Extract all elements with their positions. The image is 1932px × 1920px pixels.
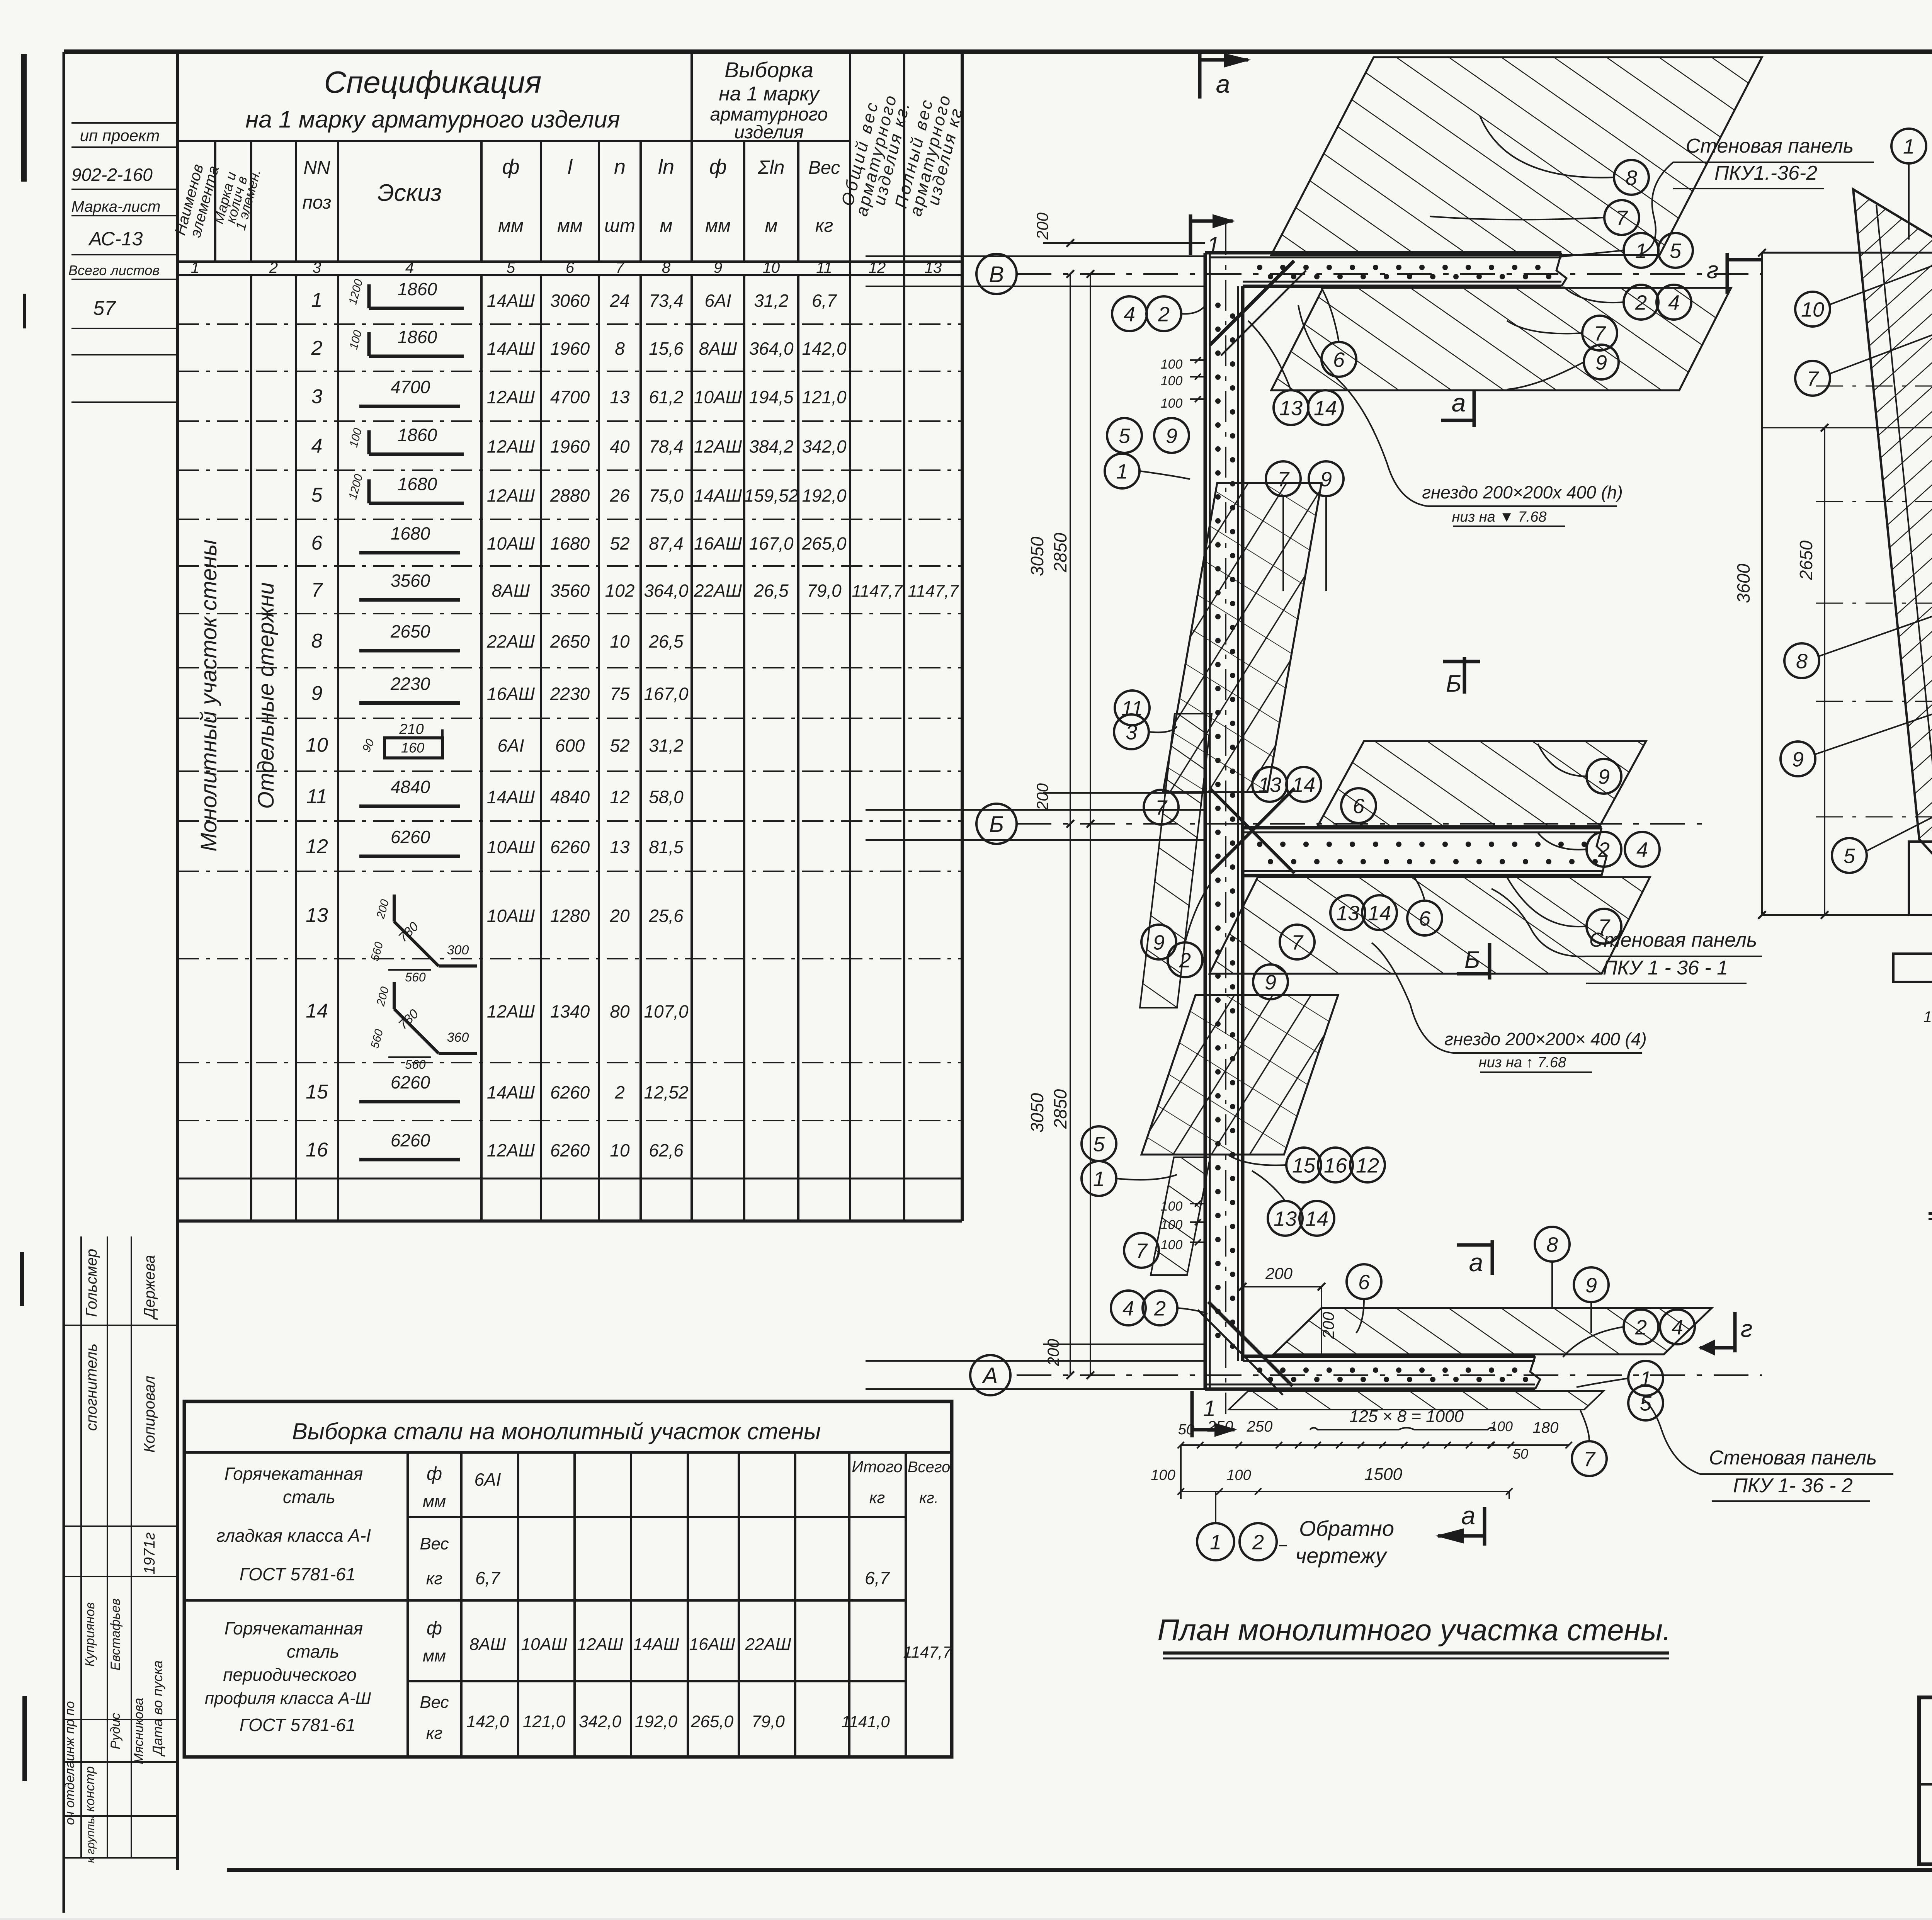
svg-text:102: 102 [605, 581, 635, 601]
svg-text:ф: ф [427, 1464, 442, 1484]
svg-text:Всего: Всего [908, 1459, 950, 1476]
svg-text:4: 4 [1122, 1297, 1134, 1320]
svg-text:560: 560 [405, 1058, 426, 1071]
plan: callouts middle cluster [1252, 767, 1287, 802]
svg-text:Б: Б [1446, 670, 1461, 697]
svg-text:1: 1 [311, 289, 323, 311]
svg-text:констр: констр [83, 1766, 97, 1812]
svg-text:14: 14 [1292, 773, 1315, 796]
plan: left narrow hatched band lower [1151, 1157, 1210, 1275]
svg-text:13: 13 [925, 259, 942, 276]
svg-text:План монолитного участка стен: План монолитного участка стены. [1157, 1613, 1671, 1647]
svg-text:2: 2 [614, 1082, 625, 1102]
svg-text:2880: 2880 [550, 486, 590, 506]
plan: left dimension chains upper [1070, 274, 1071, 824]
svg-text:4700: 4700 [550, 387, 590, 407]
svg-text:2: 2 [1252, 1531, 1264, 1554]
svg-text:Выборка: Выборка [724, 58, 813, 82]
svg-text:ф: ф [709, 155, 726, 179]
svg-text:13: 13 [1274, 1207, 1297, 1230]
svg-text:периодического: периодического [223, 1665, 357, 1685]
svg-text:кг: кг [426, 1724, 442, 1743]
svg-text:ип проект: ип проект [80, 126, 160, 145]
svg-text:192,0: 192,0 [802, 486, 847, 506]
svg-text:31,2: 31,2 [754, 291, 789, 311]
svg-text:10АШ: 10АШ [487, 837, 535, 857]
svg-text:61,2: 61,2 [649, 387, 684, 407]
svg-text:Держева: Держева [141, 1255, 158, 1320]
svg-text:Монолитный участок стены: Монолитный участок стены [196, 539, 221, 852]
svg-text:200: 200 [1033, 212, 1051, 240]
svg-text:1500: 1500 [1364, 1465, 1402, 1484]
svg-text:167,0: 167,0 [749, 534, 794, 554]
spec table header [178, 140, 850, 142]
plan: hatched band below bottom bar [1229, 1391, 1604, 1410]
plan: axis line А [1017, 1374, 1762, 1376]
svg-text:75: 75 [610, 684, 630, 704]
svg-text:4: 4 [1124, 303, 1135, 326]
svg-text:n: n [614, 155, 626, 179]
svg-text:80: 80 [610, 1002, 630, 1022]
svg-text:265,0: 265,0 [690, 1712, 734, 1731]
svg-text:кг: кг [815, 216, 833, 236]
svg-text:Копировал: Копировал [141, 1376, 158, 1453]
svg-text:низ на ▼ 7.68: низ на ▼ 7.68 [1452, 509, 1547, 525]
svg-text:ф: ф [502, 155, 519, 179]
svg-text:560: 560 [405, 970, 426, 984]
plan: hatched band above bottom bar [1274, 1308, 1712, 1354]
svg-text:кг.: кг. [919, 1490, 939, 1507]
svg-text:75,0: 75,0 [649, 486, 684, 506]
svg-text:180: 180 [1533, 1419, 1559, 1436]
svg-text:1860: 1860 [398, 327, 437, 347]
svg-text:13: 13 [1336, 901, 1359, 925]
svg-text:200: 200 [1265, 1264, 1293, 1282]
svg-text:5: 5 [1119, 424, 1131, 447]
svg-text:2: 2 [1158, 303, 1170, 326]
svg-text:3: 3 [313, 259, 321, 276]
svg-text:16: 16 [306, 1139, 328, 1161]
svg-text:1960: 1960 [550, 338, 590, 359]
svg-text:26: 26 [609, 486, 630, 506]
svg-text:1141,0: 1141,0 [841, 1713, 890, 1731]
plan: hatched band above middle bar [1318, 741, 1646, 826]
svg-text:265,0: 265,0 [801, 534, 847, 554]
svg-text:107,0: 107,0 [644, 1002, 689, 1022]
svg-text:6260: 6260 [391, 827, 430, 847]
svg-text:12АШ: 12АШ [487, 1140, 535, 1160]
svg-text:78,4: 78,4 [649, 437, 684, 457]
svg-text:15,6: 15,6 [649, 338, 684, 359]
svg-text:6: 6 [566, 259, 575, 276]
svg-text:1: 1 [1203, 1396, 1216, 1421]
svg-text:2: 2 [311, 337, 323, 359]
svg-text:гладкая класса А-I: гладкая класса А-I [216, 1525, 371, 1546]
svg-text:6260: 6260 [550, 1082, 590, 1102]
svg-text:6АI: 6АI [497, 736, 524, 756]
svg-text:1: 1 [191, 259, 199, 276]
scan edge smudges [21, 54, 27, 182]
svg-text:14АШ: 14АШ [487, 338, 535, 359]
svg-text:Всего листов: Всего листов [68, 262, 160, 278]
svg-text:ГОСТ 5781-61: ГОСТ 5781-61 [240, 1715, 356, 1735]
svg-text:2: 2 [269, 259, 278, 276]
svg-text:79,0: 79,0 [752, 1712, 785, 1731]
plan: hatched panel above top bar [1271, 57, 1762, 255]
svg-text:600: 600 [555, 736, 585, 756]
svg-text:Куприянов: Куприянов [83, 1602, 97, 1667]
section a: foundation [1909, 842, 1932, 915]
svg-text:6260: 6260 [391, 1130, 430, 1150]
svg-text:9: 9 [1585, 1274, 1597, 1297]
svg-text:профиля класса А-Ш: профиля класса А-Ш [205, 1689, 371, 1708]
svg-text:l: l [568, 155, 573, 179]
svg-text:инж пр по: инж пр по [63, 1701, 77, 1761]
svg-text:14АШ: 14АШ [487, 1082, 535, 1102]
svg-text:11: 11 [816, 259, 832, 276]
svg-text:2650: 2650 [390, 621, 430, 641]
plan: callouts left mid [1107, 418, 1142, 453]
svg-text:Итого: Итого [852, 1457, 903, 1476]
svg-text:7: 7 [1616, 206, 1628, 230]
title block frame [1919, 1697, 1932, 1864]
svg-text:192,0: 192,0 [635, 1712, 678, 1731]
svg-text:12АШ: 12АШ [487, 486, 535, 506]
svg-text:Гольсмер: Гольсмер [83, 1249, 100, 1317]
svg-text:8: 8 [1626, 166, 1637, 189]
plan: rebar dots top leg [1257, 265, 1262, 270]
svg-text:210: 210 [399, 721, 423, 738]
svg-text:125 × 8 = 1000: 125 × 8 = 1000 [1349, 1407, 1464, 1426]
svg-text:7: 7 [1136, 1239, 1148, 1262]
plan: rebar dots bottom leg [1257, 1367, 1262, 1373]
svg-text:1: 1 [1116, 460, 1128, 483]
plan: cross hatched block lower [1141, 995, 1338, 1155]
svg-text:Б: Б [989, 812, 1004, 837]
svg-text:1147,7: 1147,7 [908, 582, 959, 601]
svg-text:364,0: 364,0 [749, 338, 794, 359]
svg-text:7: 7 [311, 579, 323, 602]
svg-text:6,7: 6,7 [475, 1568, 500, 1588]
svg-text:поз: поз [303, 192, 332, 213]
svg-text:12АШ: 12АШ [487, 1002, 535, 1022]
svg-text:м: м [660, 216, 673, 236]
svg-text:6: 6 [1333, 348, 1345, 371]
svg-text:22АШ: 22АШ [694, 581, 742, 601]
svg-text:8: 8 [311, 630, 323, 652]
svg-text:ln: ln [658, 155, 674, 179]
svg-text:2650: 2650 [1796, 540, 1816, 580]
svg-text:14АШ: 14АШ [633, 1635, 679, 1654]
page frame [64, 49, 1932, 54]
svg-text:10: 10 [610, 631, 630, 651]
svg-text:167,0: 167,0 [644, 684, 689, 704]
plan: hatched panel below top bar [1271, 288, 1731, 390]
plan: callouts right middle [1587, 759, 1621, 794]
svg-text:159,52: 159,52 [744, 486, 799, 506]
steel selection table [184, 1401, 952, 1757]
plan: section mark 1 top corner [1189, 214, 1192, 255]
svg-text:12: 12 [306, 835, 328, 858]
svg-text:3050: 3050 [1027, 536, 1047, 576]
svg-text:142,0: 142,0 [466, 1712, 509, 1731]
svg-text:13: 13 [1258, 773, 1281, 796]
svg-text:342,0: 342,0 [579, 1712, 622, 1731]
svg-text:100: 100 [1151, 1467, 1175, 1483]
svg-text:11: 11 [306, 786, 327, 808]
sections: horizontal guide dashdot lines [1816, 386, 1932, 387]
svg-text:2: 2 [1635, 1316, 1647, 1339]
plan: wall vertical leg [1204, 253, 1207, 1389]
svg-text:8: 8 [1796, 650, 1808, 673]
plan: corner diagonal bars top [1210, 261, 1294, 345]
svg-text:а: а [1469, 1248, 1483, 1277]
svg-text:Вес: Вес [420, 1693, 449, 1712]
plan: callouts bottom right [1624, 1309, 1658, 1344]
svg-text:62,6: 62,6 [649, 1140, 684, 1160]
svg-text:50: 50 [1178, 1422, 1194, 1438]
plan: section mark Б upper [1463, 657, 1466, 694]
svg-text:10АШ: 10АШ [487, 534, 535, 554]
svg-text:2: 2 [1635, 291, 1647, 314]
svg-text:5: 5 [1670, 239, 1682, 262]
svg-text:22АШ: 22АШ [486, 631, 535, 651]
svg-text:121,0: 121,0 [802, 387, 847, 407]
svg-text:79,0: 79,0 [807, 581, 842, 601]
svg-text:3600: 3600 [1733, 563, 1753, 603]
svg-text:9: 9 [1792, 748, 1804, 771]
plan: wall top leg [1205, 251, 1561, 255]
plan: axis line Б [1017, 823, 1712, 825]
svg-text:Евстафьев: Евстафьев [108, 1599, 123, 1670]
section a: inner panel edge lines [1876, 205, 1932, 819]
svg-text:4: 4 [311, 435, 323, 457]
svg-text:31,2: 31,2 [649, 736, 684, 756]
spec subheader [214, 141, 216, 262]
specification table frame [176, 52, 179, 1221]
plan: section mark a top [1198, 54, 1202, 99]
svg-text:Отдельные стержни: Отдельные стержни [253, 582, 279, 809]
svg-text:100: 100 [1161, 396, 1183, 411]
svg-text:2: 2 [1154, 1297, 1166, 1320]
svg-text:8: 8 [662, 259, 671, 276]
svg-text:кг: кг [869, 1488, 885, 1507]
svg-text:73,4: 73,4 [649, 291, 684, 311]
plan: rebar dots vertical wall [1215, 303, 1221, 308]
svg-text:мм: мм [423, 1492, 446, 1511]
svg-text:1147,7: 1147,7 [903, 1643, 952, 1661]
svg-text:1971г: 1971г [141, 1532, 158, 1575]
section a: base plate [1893, 954, 1932, 982]
svg-text:81,5: 81,5 [649, 837, 684, 857]
svg-text:12АШ: 12АШ [694, 437, 742, 457]
plan: callout 2 left below B axis [1168, 942, 1202, 977]
svg-text:чертежу: чертежу [1295, 1543, 1388, 1568]
svg-text:изделия: изделия [734, 122, 804, 143]
svg-text:24: 24 [609, 291, 629, 311]
svg-text:сталь: сталь [283, 1487, 335, 1507]
svg-text:5: 5 [311, 484, 323, 507]
svg-text:9: 9 [714, 259, 722, 276]
svg-text:1: 1 [1207, 232, 1219, 258]
svg-text:52: 52 [610, 736, 629, 756]
plan: wall bottom leg [1243, 1355, 1535, 1358]
svg-text:4840: 4840 [391, 777, 430, 797]
svg-text:ГОСТ 5781-61: ГОСТ 5781-61 [240, 1564, 356, 1584]
svg-text:1680: 1680 [391, 524, 430, 544]
svg-text:мм: мм [705, 216, 731, 236]
svg-text:на 1 марку арматурного изделия: на 1 марку арматурного изделия [245, 106, 620, 133]
svg-text:1: 1 [1210, 1531, 1221, 1554]
sections: left dims a-a [1761, 253, 1763, 915]
svg-text:Марка-лист: Марка-лист [71, 198, 161, 215]
svg-text:Стеновая панель: Стеновая панель [1686, 135, 1854, 157]
svg-text:16АШ: 16АШ [689, 1635, 735, 1654]
svg-text:57: 57 [93, 297, 116, 320]
svg-text:2850: 2850 [1050, 1089, 1070, 1129]
svg-text:58,0: 58,0 [649, 787, 684, 807]
svg-text:6АI: 6АI [474, 1469, 501, 1490]
svg-text:3560: 3560 [391, 571, 430, 591]
svg-text:Горячекатанная: Горячекатанная [224, 1618, 363, 1638]
svg-text:15: 15 [1292, 1154, 1316, 1177]
svg-text:10: 10 [306, 734, 328, 757]
svg-text:12АШ: 12АШ [577, 1635, 623, 1654]
svg-text:шт: шт [604, 216, 635, 236]
svg-text:26,5: 26,5 [753, 581, 789, 601]
svg-text:1: 1 [1093, 1167, 1105, 1190]
svg-text:7: 7 [1277, 468, 1290, 491]
svg-text:Рудис: Рудис [108, 1713, 123, 1749]
svg-text:4: 4 [1672, 1316, 1683, 1339]
svg-text:20: 20 [609, 906, 630, 926]
svg-text:ПКУ 1- 36 - 2: ПКУ 1- 36 - 2 [1733, 1474, 1853, 1497]
svg-text:4: 4 [1668, 291, 1680, 314]
svg-text:160: 160 [401, 740, 424, 756]
plan: left narrow hatched band upper [1140, 714, 1212, 1008]
plan: section mark a second [1473, 390, 1476, 427]
svg-text:87,4: 87,4 [649, 534, 684, 554]
svg-text:10: 10 [1801, 298, 1824, 321]
svg-text:6,7: 6,7 [812, 291, 837, 311]
svg-text:9: 9 [1598, 765, 1610, 788]
plan: 200 offsets at axes [1043, 242, 1205, 244]
svg-text:низ на ↑ 7.68: низ на ↑ 7.68 [1479, 1054, 1566, 1071]
svg-text:2230: 2230 [550, 684, 590, 704]
svg-text:16АШ: 16АШ [487, 684, 535, 704]
svg-text:100: 100 [1923, 1008, 1932, 1025]
svg-text:сталь: сталь [287, 1641, 339, 1662]
svg-text:100: 100 [1490, 1418, 1513, 1434]
svg-text:1: 1 [1903, 135, 1915, 158]
svg-text:1960: 1960 [550, 437, 590, 457]
svg-text:250: 250 [1207, 1418, 1233, 1435]
plan: bottom dim chain 2 [1181, 1491, 1509, 1492]
plan: middle panel joint bar [1243, 826, 1602, 830]
svg-text:100: 100 [1226, 1467, 1251, 1483]
svg-text:12АШ: 12АШ [487, 387, 535, 407]
svg-text:1280: 1280 [550, 906, 590, 926]
svg-text:6260: 6260 [550, 837, 590, 857]
section a: top callouts [1891, 129, 1926, 163]
plan: corner 200 dims lower [1243, 1286, 1321, 1287]
plan: section mark 1 bottom corner [1190, 1391, 1194, 1437]
svg-text:14: 14 [1305, 1207, 1328, 1230]
svg-text:384,2: 384,2 [749, 437, 793, 457]
svg-text:2: 2 [1598, 838, 1610, 861]
sections: bottom reference line [1762, 914, 1932, 916]
svg-text:мм: мм [498, 216, 524, 236]
svg-text:7: 7 [1291, 931, 1304, 954]
section a: left panel [1853, 189, 1932, 889]
svg-text:8АШ: 8АШ [699, 338, 737, 359]
svg-text:1860: 1860 [398, 279, 437, 299]
plan: callouts lower half [1082, 1126, 1116, 1161]
plan: section mark g right top [1726, 253, 1729, 294]
svg-text:6,7: 6,7 [865, 1568, 890, 1588]
svg-text:9: 9 [1595, 351, 1607, 374]
svg-text:3: 3 [311, 386, 323, 408]
svg-text:902-2-160: 902-2-160 [71, 165, 153, 185]
svg-text:14АШ: 14АШ [487, 291, 535, 311]
svg-text:13: 13 [1279, 396, 1303, 420]
svg-text:к группы: к группы [84, 1815, 97, 1863]
svg-text:8: 8 [1546, 1233, 1558, 1256]
svg-text:1340: 1340 [550, 1002, 590, 1022]
svg-text:26,5: 26,5 [648, 631, 684, 651]
svg-text:3060: 3060 [550, 291, 590, 311]
sections: shared top reference line [1762, 252, 1932, 254]
svg-text:спогнитель: спогнитель [83, 1343, 100, 1431]
svg-text:3: 3 [1126, 721, 1137, 744]
svg-text:15: 15 [306, 1081, 328, 1103]
svg-text:8АШ: 8АШ [469, 1635, 506, 1654]
svg-text:Стеновая панель: Стеновая панель [1589, 929, 1757, 951]
svg-text:6260: 6260 [550, 1140, 590, 1160]
svg-text:5: 5 [1093, 1133, 1105, 1156]
svg-text:Обратно: Обратно [1299, 1516, 1394, 1541]
svg-text:а: а [1216, 70, 1230, 98]
svg-text:13: 13 [610, 387, 630, 407]
svg-text:3560: 3560 [550, 581, 590, 601]
plan: bottom dim chain 1 [1181, 1444, 1569, 1446]
svg-text:2230: 2230 [390, 674, 430, 694]
svg-text:4: 4 [1636, 838, 1648, 861]
svg-text:7: 7 [616, 259, 625, 276]
svg-text:100: 100 [1161, 1218, 1183, 1232]
svg-text:2850: 2850 [1050, 532, 1070, 573]
svg-text:200: 200 [1319, 1311, 1337, 1339]
svg-text:50: 50 [1513, 1446, 1528, 1462]
plan: hatched band below middle bar [1209, 877, 1650, 974]
svg-text:9: 9 [1153, 931, 1165, 954]
svg-text:Горячекатанная: Горячекатанная [224, 1464, 363, 1484]
svg-text:9: 9 [1320, 468, 1332, 491]
svg-text:Б: Б [1464, 947, 1480, 973]
svg-text:5: 5 [1640, 1392, 1652, 1415]
svg-text:Мясникова: Мясникова [131, 1698, 146, 1764]
svg-text:В: В [989, 262, 1004, 287]
svg-text:7: 7 [1583, 1447, 1596, 1471]
svg-text:16АШ: 16АШ [694, 534, 742, 554]
svg-text:13: 13 [306, 904, 328, 927]
svg-text:142,0: 142,0 [802, 338, 847, 359]
svg-text:ПКУ 1 - 36 - 1: ПКУ 1 - 36 - 1 [1603, 957, 1728, 979]
section a: side callouts [1795, 292, 1830, 327]
svg-text:3050: 3050 [1027, 1093, 1047, 1133]
svg-text:12: 12 [1356, 1154, 1379, 1177]
svg-text:8: 8 [615, 338, 625, 359]
